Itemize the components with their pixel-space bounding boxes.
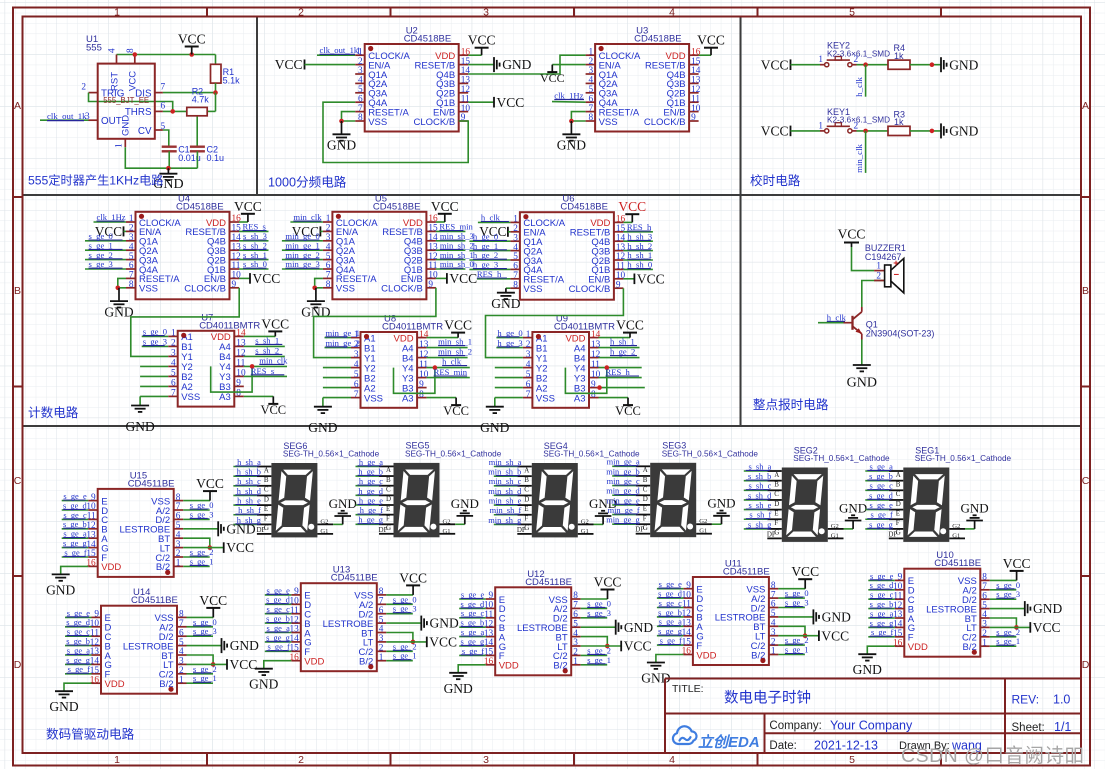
svg-text:1: 1	[573, 657, 578, 667]
svg-text:3: 3	[526, 350, 531, 360]
svg-text:5: 5	[171, 369, 176, 379]
svg-text:校时电路: 校时电路	[750, 173, 801, 188]
svg-text:CD4511BE: CD4511BE	[934, 558, 981, 569]
svg-text:G1: G1	[581, 528, 589, 535]
svg-text:CD4011BMTR: CD4011BMTR	[199, 320, 260, 331]
svg-text:OUT: OUT	[101, 116, 122, 127]
svg-text:GND: GND	[226, 521, 255, 536]
svg-text:C: C	[524, 486, 529, 494]
svg-text:CD4511BE: CD4511BE	[128, 478, 175, 489]
svg-text:GND: GND	[949, 57, 978, 72]
svg-text:VCC: VCC	[697, 33, 725, 48]
svg-text:A: A	[14, 100, 21, 112]
svg-text:D: D	[524, 495, 529, 503]
svg-text:9: 9	[232, 280, 237, 290]
svg-text:VDD: VDD	[499, 661, 519, 672]
svg-text:B: B	[1082, 285, 1089, 297]
svg-text:3: 3	[483, 6, 489, 18]
svg-text:555_BJT_EE: 555_BJT_EE	[103, 96, 149, 105]
svg-text:CD4011BMTR: CD4011BMTR	[382, 322, 443, 333]
svg-text:计数电路: 计数电路	[28, 405, 79, 420]
svg-text:1: 1	[818, 55, 823, 65]
svg-text:GND: GND	[624, 620, 653, 635]
svg-text:2: 2	[171, 339, 176, 349]
svg-text:5.1k: 5.1k	[223, 76, 241, 86]
svg-text:SEG-TH_0.56×1_Cathode: SEG-TH_0.56×1_Cathode	[405, 449, 502, 458]
svg-text:DP: DP	[888, 530, 897, 538]
svg-text:VDD: VDD	[101, 562, 121, 573]
svg-text:GND: GND	[707, 496, 735, 511]
svg-text:clk_out_1k: clk_out_1k	[47, 111, 87, 121]
svg-text:VSS: VSS	[368, 117, 387, 128]
svg-text:D: D	[1082, 659, 1090, 671]
svg-text:VCC: VCC	[199, 593, 227, 608]
svg-text:GND: GND	[308, 420, 337, 435]
svg-text:GND: GND	[430, 616, 459, 631]
svg-text:1.0: 1.0	[1053, 693, 1070, 707]
svg-text:CLOCK/B: CLOCK/B	[644, 117, 686, 128]
svg-text:G1: G1	[952, 532, 960, 539]
svg-text:1: 1	[771, 647, 776, 657]
svg-text:GND: GND	[491, 296, 520, 311]
svg-text:1: 1	[114, 6, 120, 18]
svg-text:GND: GND	[104, 304, 133, 319]
svg-text:B: B	[774, 480, 779, 488]
svg-text:VSS: VSS	[599, 117, 618, 128]
svg-text:VSS: VSS	[139, 284, 158, 295]
svg-text:clk_1Hz: clk_1Hz	[554, 90, 583, 100]
svg-text:VSS: VSS	[536, 393, 555, 404]
svg-text:E: E	[643, 505, 647, 513]
svg-text:8: 8	[129, 280, 134, 290]
svg-text:9: 9	[419, 380, 424, 390]
svg-text:G1: G1	[831, 532, 839, 539]
svg-text:9: 9	[616, 280, 621, 290]
svg-text:CD4511BE: CD4511BE	[723, 567, 770, 578]
svg-text:1/1: 1/1	[1054, 720, 1071, 734]
svg-text:GND: GND	[125, 419, 154, 434]
svg-text:5: 5	[849, 6, 855, 18]
svg-text:8: 8	[591, 390, 596, 400]
svg-text:VCC: VCC	[449, 271, 477, 286]
svg-text:VCC: VCC	[497, 95, 525, 110]
svg-text:VDD: VDD	[304, 657, 324, 668]
svg-text:DP: DP	[517, 526, 526, 534]
svg-text:2: 2	[526, 340, 531, 350]
svg-text:min_clk: min_clk	[293, 212, 322, 222]
svg-text:CLOCK/B: CLOCK/B	[381, 284, 423, 295]
svg-text:4.7k: 4.7k	[192, 95, 210, 105]
svg-text:1: 1	[526, 330, 531, 340]
svg-text:A3: A3	[219, 392, 231, 403]
svg-text:G2: G2	[831, 523, 839, 530]
svg-text:1: 1	[379, 653, 384, 663]
svg-text:7: 7	[526, 390, 531, 400]
svg-text:4: 4	[669, 754, 675, 766]
svg-text:GND: GND	[1033, 601, 1062, 616]
svg-text:GND: GND	[451, 496, 479, 511]
svg-text:REV:: REV:	[1012, 693, 1040, 707]
svg-text:GND: GND	[230, 638, 259, 653]
svg-text:E: E	[896, 509, 900, 517]
svg-text:F: F	[774, 519, 778, 527]
svg-text:1: 1	[171, 329, 176, 339]
svg-text:9: 9	[428, 280, 433, 290]
svg-text:C: C	[643, 485, 648, 493]
svg-text:GND: GND	[46, 582, 75, 597]
svg-text:9: 9	[691, 113, 696, 123]
svg-text:GND: GND	[961, 500, 989, 515]
svg-text:6: 6	[161, 101, 166, 111]
svg-text:2: 2	[81, 83, 86, 93]
svg-text:3: 3	[85, 112, 90, 122]
svg-text:VCC: VCC	[275, 57, 303, 72]
svg-text:clk_1Hz: clk_1Hz	[97, 212, 126, 222]
svg-text:7: 7	[354, 390, 359, 400]
svg-text:GND: GND	[949, 124, 978, 139]
svg-text:VCC: VCC	[443, 404, 469, 418]
svg-text:VDD: VDD	[908, 642, 928, 653]
svg-text:h_clk: h_clk	[854, 77, 864, 97]
svg-text:8: 8	[236, 389, 241, 399]
svg-text:3: 3	[483, 754, 489, 766]
svg-text:VCC: VCC	[226, 540, 254, 555]
svg-text:1: 1	[114, 754, 120, 766]
svg-text:GND: GND	[839, 500, 867, 515]
svg-text:E: E	[774, 509, 778, 517]
svg-text:VCC: VCC	[637, 271, 665, 286]
svg-text:B: B	[643, 476, 648, 484]
svg-text:GND: GND	[249, 677, 278, 692]
svg-text:4: 4	[171, 359, 176, 369]
svg-text:GND: GND	[480, 420, 509, 435]
svg-text:7: 7	[161, 83, 166, 93]
svg-text:G2: G2	[443, 518, 451, 525]
svg-text:3: 3	[354, 350, 359, 360]
svg-text:2: 2	[298, 754, 304, 766]
svg-text:数电电子时钟: 数电电子时钟	[724, 690, 811, 707]
svg-text:K2-3.6×6.1_SMD: K2-3.6×6.1_SMD	[827, 116, 890, 125]
svg-text:B: B	[386, 476, 391, 484]
svg-text:5: 5	[526, 370, 531, 380]
svg-text:G2: G2	[320, 518, 328, 525]
svg-text:4: 4	[108, 48, 118, 53]
svg-text:min_clk: min_clk	[854, 143, 864, 172]
svg-text:A: A	[524, 466, 529, 474]
svg-text:9: 9	[236, 379, 241, 389]
svg-text:SEG-TH_0.56×1_Cathode: SEG-TH_0.56×1_Cathode	[915, 454, 1012, 463]
svg-text:GND: GND	[327, 138, 356, 153]
svg-text:1: 1	[818, 121, 823, 131]
svg-text:D: D	[386, 495, 391, 503]
svg-text:C: C	[264, 486, 269, 494]
svg-text:GND: GND	[444, 681, 473, 696]
svg-text:G2: G2	[952, 523, 960, 530]
svg-text:F: F	[643, 514, 647, 522]
svg-text:Date:: Date:	[769, 740, 797, 752]
svg-text:B: B	[14, 285, 21, 297]
svg-text:A: A	[896, 471, 901, 479]
svg-text:h_clk: h_clk	[827, 312, 847, 322]
svg-text:TITLE:: TITLE:	[672, 683, 704, 695]
svg-text:1k: 1k	[894, 117, 904, 127]
svg-text:VCC: VCC	[616, 318, 644, 333]
svg-text:VSS: VSS	[336, 284, 355, 295]
svg-text:1: 1	[179, 675, 184, 685]
svg-text:VCC: VCC	[1033, 620, 1061, 635]
svg-text:VCC: VCC	[253, 271, 281, 286]
svg-text:B: B	[264, 476, 269, 484]
svg-text:1: 1	[356, 47, 361, 57]
svg-text:A3: A3	[574, 393, 586, 404]
svg-text:A: A	[264, 466, 269, 474]
svg-text:1k: 1k	[894, 51, 904, 61]
svg-text:VCC: VCC	[431, 199, 459, 214]
svg-text:VCC: VCC	[468, 33, 496, 48]
svg-text:6: 6	[171, 379, 176, 389]
svg-text:CD4518BE: CD4518BE	[634, 34, 682, 45]
svg-text:DP: DP	[635, 526, 644, 534]
svg-text:VCC: VCC	[234, 199, 262, 214]
svg-text:DP: DP	[767, 530, 776, 538]
svg-text:CD4511BE: CD4511BE	[131, 595, 178, 606]
svg-text:D: D	[643, 495, 648, 503]
svg-text:THRS: THRS	[125, 107, 152, 118]
svg-text:F: F	[386, 514, 390, 522]
svg-text:2: 2	[876, 272, 881, 282]
svg-text:2021-12-13: 2021-12-13	[814, 739, 878, 753]
svg-text:GND: GND	[329, 496, 357, 511]
svg-text:Company:: Company:	[769, 720, 821, 732]
svg-text:GND: GND	[847, 376, 877, 391]
svg-text:h_clk: h_clk	[481, 212, 501, 222]
svg-text:E: E	[386, 505, 390, 513]
svg-text:VCC: VCC	[261, 316, 289, 331]
svg-text:VSS: VSS	[523, 284, 542, 295]
svg-text:1: 1	[115, 143, 125, 148]
svg-text:DP: DP	[379, 526, 388, 534]
svg-text:VCC: VCC	[838, 227, 866, 242]
svg-text:VCC: VCC	[594, 575, 622, 590]
svg-text:GND: GND	[557, 138, 586, 153]
svg-text:8: 8	[126, 48, 136, 53]
svg-text:F: F	[896, 519, 900, 527]
svg-text:B: B	[896, 480, 901, 488]
svg-text:2N3904(SOT-23): 2N3904(SOT-23)	[866, 328, 935, 338]
svg-text:F: F	[524, 515, 528, 523]
svg-text:C: C	[14, 475, 22, 487]
svg-text:VCC: VCC	[791, 564, 819, 579]
svg-text:C: C	[896, 490, 901, 498]
svg-text:−: −	[894, 270, 900, 281]
svg-text:G1: G1	[699, 528, 707, 535]
svg-text:D: D	[896, 500, 901, 508]
svg-text:GND: GND	[49, 699, 78, 714]
svg-text:C: C	[1082, 475, 1090, 487]
svg-text:clk_out_1k: clk_out_1k	[320, 45, 359, 55]
svg-text:8: 8	[358, 113, 363, 123]
svg-text:VCC: VCC	[230, 657, 258, 672]
svg-text:555: 555	[86, 43, 102, 54]
svg-text:CD4511BE: CD4511BE	[331, 573, 378, 584]
svg-text:1: 1	[982, 638, 987, 648]
svg-text:CLOCK/B: CLOCK/B	[413, 117, 455, 128]
svg-text:Your Company: Your Company	[830, 719, 913, 733]
svg-text:8: 8	[513, 280, 518, 290]
svg-text:VCC: VCC	[429, 635, 457, 650]
svg-text:VCC: VCC	[178, 32, 206, 47]
svg-text:B: B	[524, 476, 529, 484]
svg-text:D: D	[264, 495, 269, 503]
svg-text:CD4511BE: CD4511BE	[525, 577, 572, 588]
svg-text:5: 5	[354, 370, 359, 380]
svg-text:2: 2	[298, 6, 304, 18]
svg-text:G2: G2	[699, 518, 707, 525]
svg-text:SEG-TH_0.56×1_Cathode: SEG-TH_0.56×1_Cathode	[662, 449, 759, 458]
svg-text:VCC: VCC	[260, 403, 286, 417]
svg-text:VCC: VCC	[761, 124, 789, 139]
svg-text:VCC: VCC	[540, 71, 565, 85]
svg-text:4: 4	[354, 360, 359, 370]
svg-text:整点报时电路: 整点报时电路	[753, 397, 829, 412]
svg-text:C: C	[774, 490, 779, 498]
svg-text:VDD: VDD	[105, 679, 125, 690]
svg-text:1: 1	[176, 559, 181, 569]
svg-text:VSS: VSS	[181, 392, 200, 403]
svg-text:GND: GND	[822, 610, 851, 625]
svg-text:VSS: VSS	[364, 393, 383, 404]
svg-text:A: A	[643, 466, 648, 474]
svg-text:CD4011BMTR: CD4011BMTR	[554, 322, 615, 333]
svg-text:CD4518BE: CD4518BE	[404, 34, 452, 45]
svg-text:8: 8	[588, 113, 593, 123]
svg-text:GND: GND	[853, 662, 882, 677]
svg-text:CSDN @口音阙诗吅: CSDN @口音阙诗吅	[901, 745, 1084, 767]
svg-text:CV: CV	[138, 126, 152, 137]
svg-text:1000分频电路: 1000分频电路	[268, 175, 347, 190]
svg-text:C: C	[386, 486, 391, 494]
svg-text:F: F	[264, 515, 268, 523]
svg-text:0.1u: 0.1u	[207, 153, 225, 163]
svg-text:CD4518BE: CD4518BE	[176, 201, 224, 212]
svg-text:G1: G1	[320, 528, 328, 535]
svg-text:G2: G2	[581, 518, 589, 525]
svg-text:A: A	[1082, 100, 1089, 112]
svg-text:E: E	[264, 505, 268, 513]
svg-text:A: A	[774, 471, 779, 479]
svg-text:8: 8	[326, 280, 331, 290]
svg-text:VCC: VCC	[196, 476, 224, 491]
svg-text:CLOCK/B: CLOCK/B	[569, 284, 611, 295]
svg-text:CLOCK/B: CLOCK/B	[184, 284, 226, 295]
svg-text:数码管驱动电路: 数码管驱动电路	[46, 727, 135, 742]
svg-text:D: D	[774, 500, 779, 508]
svg-text:D: D	[14, 659, 22, 671]
svg-text:4: 4	[669, 6, 675, 18]
svg-text:G1: G1	[443, 528, 451, 535]
svg-text:6: 6	[354, 380, 359, 390]
svg-text:1: 1	[876, 262, 881, 272]
svg-text:VCC: VCC	[444, 318, 472, 333]
svg-text:VDD: VDD	[696, 650, 716, 661]
svg-text:Sheet:: Sheet:	[1012, 722, 1045, 734]
svg-text:5: 5	[849, 754, 855, 766]
svg-text:3: 3	[171, 349, 176, 359]
svg-text:立创EDA: 立创EDA	[698, 733, 760, 751]
svg-text:E: E	[524, 505, 528, 513]
svg-text:CD4518BE: CD4518BE	[560, 202, 608, 213]
svg-text:555定时器产生1KHz电路: 555定时器产生1KHz电路	[28, 173, 163, 188]
svg-text:VCC: VCC	[821, 628, 849, 643]
svg-text:8: 8	[419, 390, 424, 400]
svg-text:A3: A3	[402, 393, 414, 404]
svg-text:K2-3.6×6.1_SMD: K2-3.6×6.1_SMD	[827, 50, 890, 59]
svg-text:9: 9	[591, 380, 596, 390]
svg-text:VCC: VCC	[624, 639, 652, 654]
svg-text:7: 7	[171, 389, 176, 399]
svg-text:GND: GND	[502, 57, 531, 72]
svg-text:VCC: VCC	[615, 404, 641, 418]
svg-text:4: 4	[526, 360, 531, 370]
svg-text:A: A	[386, 466, 391, 474]
svg-text:VCC: VCC	[399, 570, 427, 585]
svg-text:VCC: VCC	[761, 57, 789, 72]
svg-text:DP: DP	[256, 526, 265, 534]
svg-text:CD4518BE: CD4518BE	[373, 201, 421, 212]
svg-text:VCC: VCC	[1003, 556, 1031, 571]
svg-text:VCC: VCC	[618, 199, 646, 214]
svg-text:+: +	[893, 258, 899, 269]
svg-text:6: 6	[526, 380, 531, 390]
